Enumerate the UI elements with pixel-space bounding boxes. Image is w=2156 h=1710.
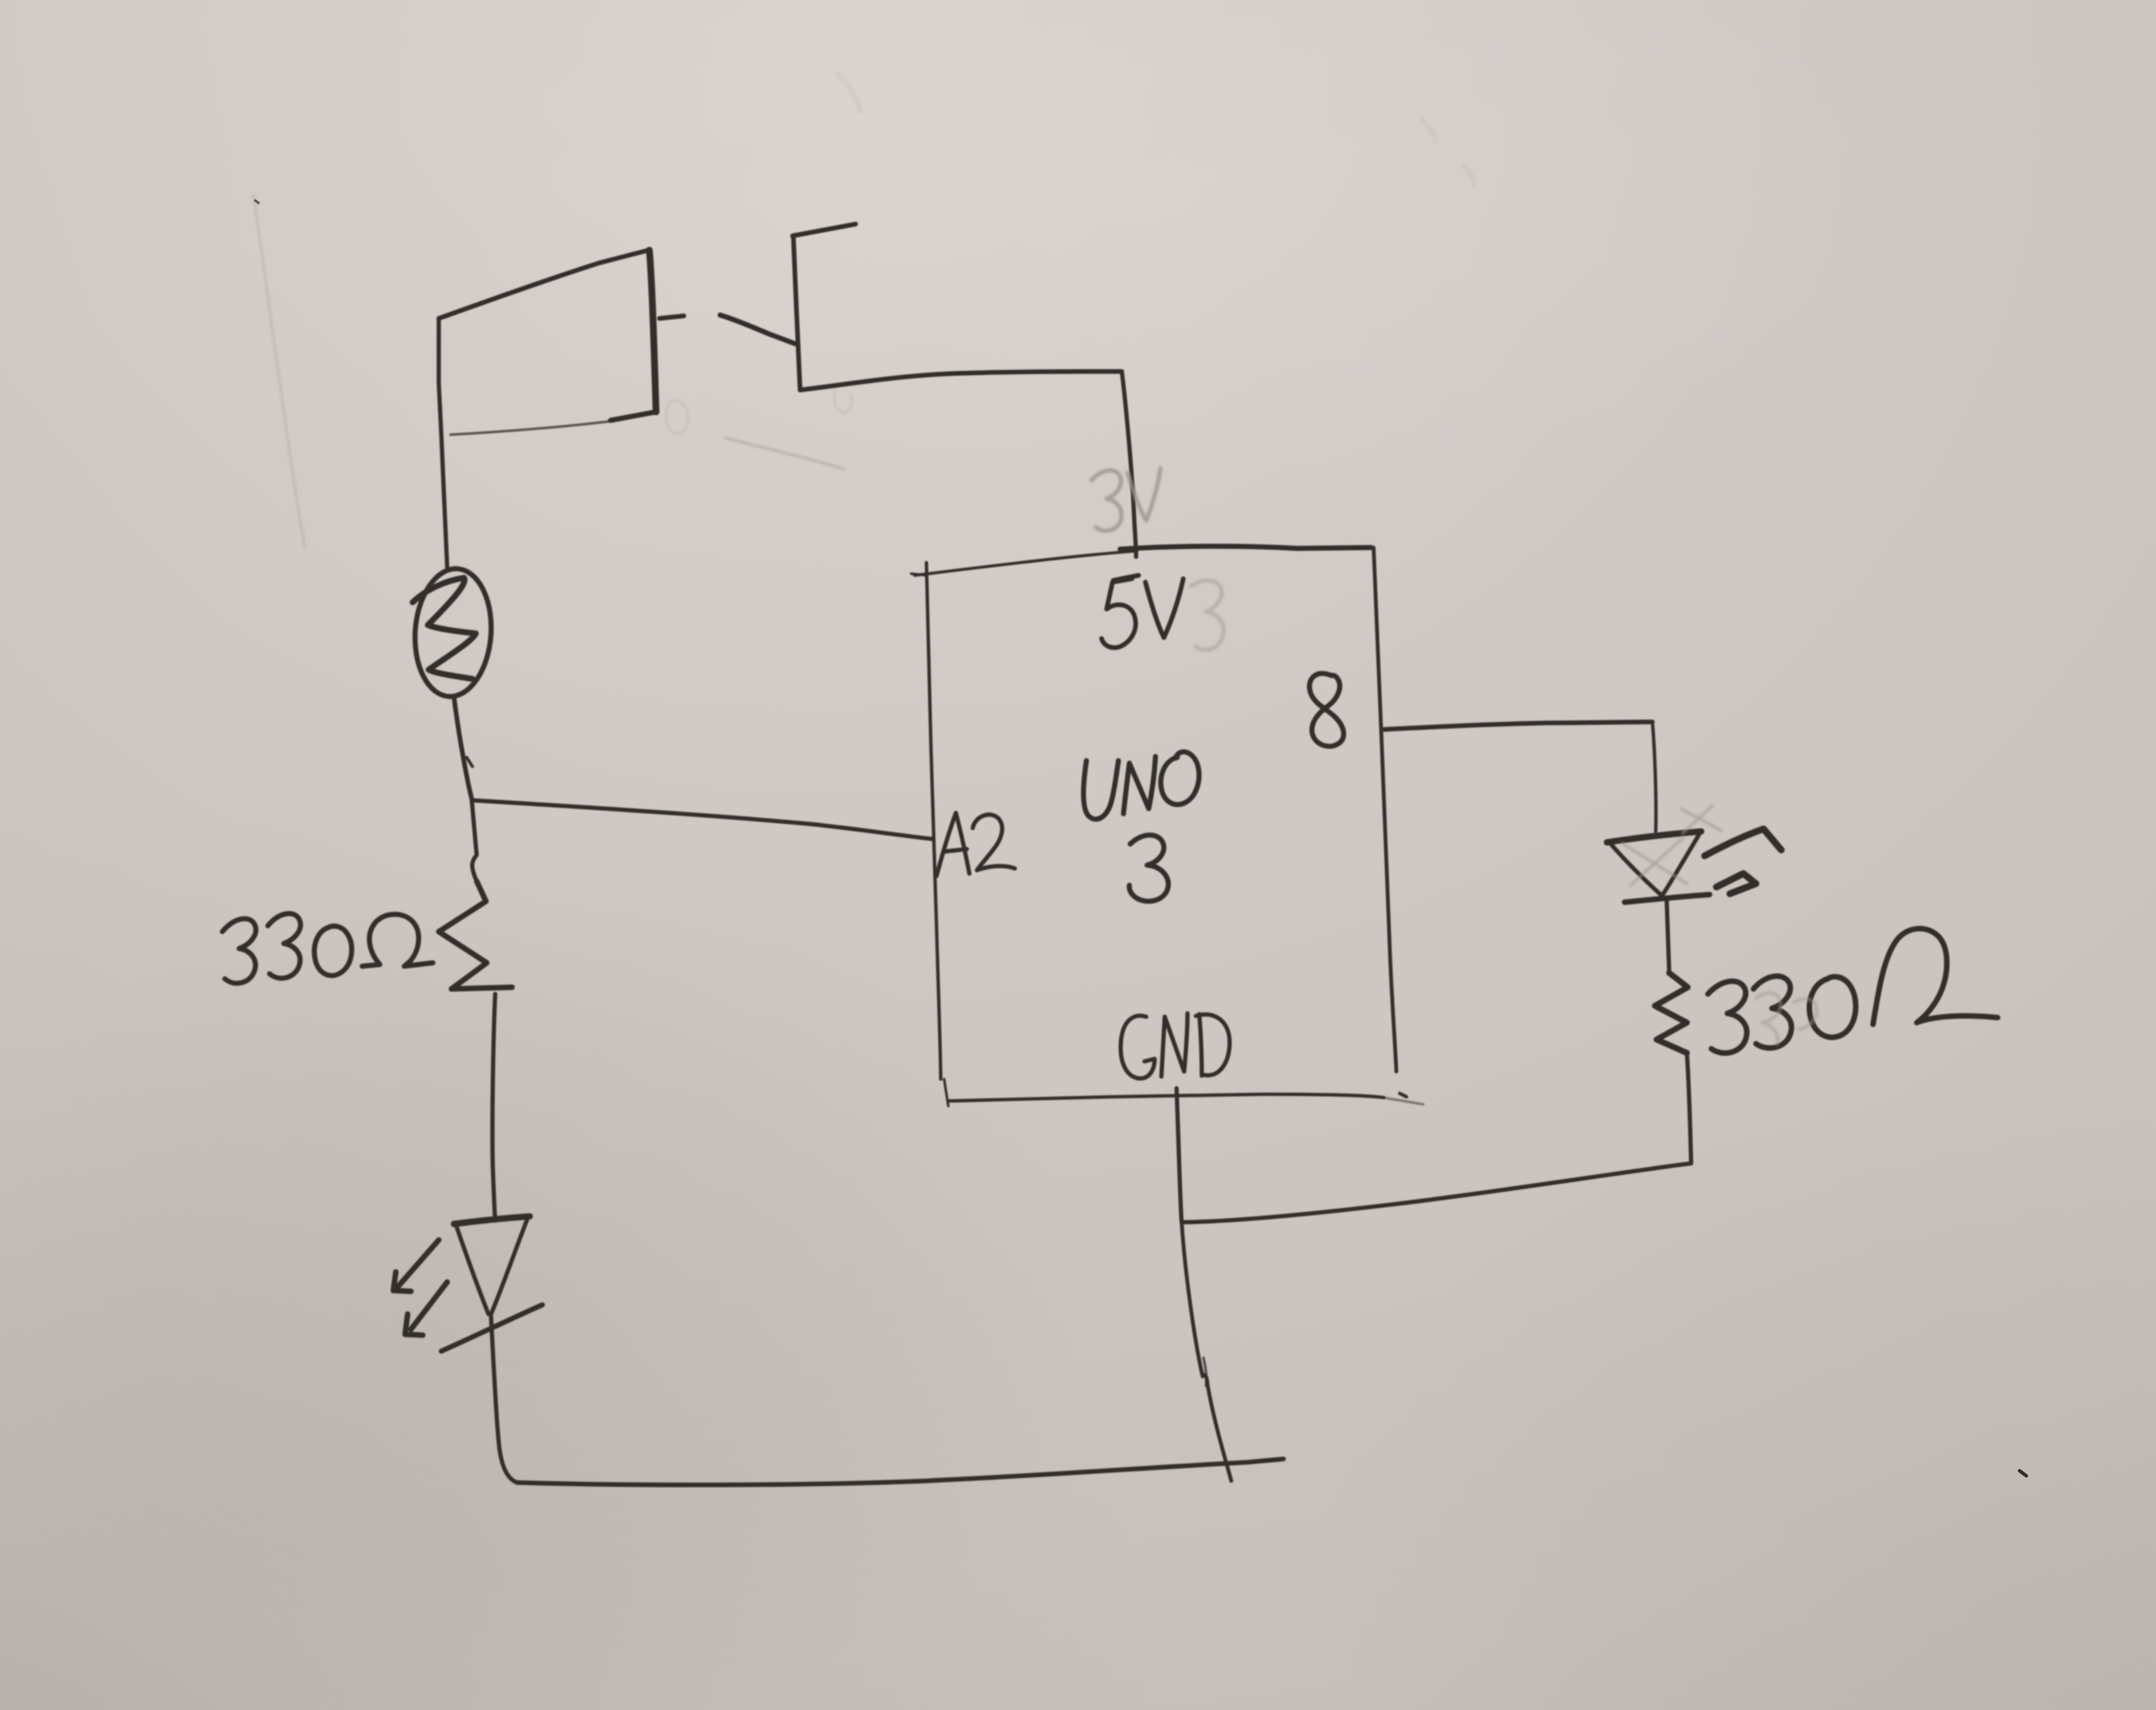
pencil ghost under 330 right <box>1756 993 1817 1045</box>
wire junction to A2 pin <box>472 800 933 839</box>
wire GND pin down <box>1177 1088 1182 1221</box>
pencil ghost 3 after 5V <box>1191 580 1224 649</box>
switch S1 left contact tick <box>659 316 684 318</box>
switch S1 left contact plate (hand-drawn rectangle) <box>439 250 656 435</box>
label 330ohm left <box>222 914 433 984</box>
wire LDR top <box>441 435 447 568</box>
photoresistor LDR (oval with squiggle) <box>411 566 495 699</box>
label UNO <box>1084 752 1199 820</box>
label 330ohm right <box>1708 928 1998 1053</box>
LED D2 emission arrows <box>1705 829 1781 894</box>
switch S1 right bracket <box>792 224 856 390</box>
wire from switch to 5V corner <box>800 371 1122 390</box>
box left edge <box>926 563 941 1079</box>
LED D1 (triangle down) <box>454 1216 530 1314</box>
resistor R1 zigzag <box>439 881 512 989</box>
arduino UNO box <box>911 546 1423 1106</box>
bottom wire to GND <box>517 1459 1283 1485</box>
box right edge <box>1374 548 1396 1071</box>
LED D1 cathode bar <box>441 1305 542 1351</box>
label GND <box>1121 1013 1230 1078</box>
wire R1 to LED1 <box>493 994 495 1221</box>
switch S1 movable contact lead <box>720 315 795 344</box>
wire LDR to junction <box>454 697 472 799</box>
box top edge <box>915 551 1137 575</box>
paper wrinkle top center <box>838 74 861 111</box>
paper dents top right <box>1422 120 1436 142</box>
wire LED1 down to bottom <box>491 1316 517 1483</box>
resistor R2 zigzag <box>1655 973 1688 1053</box>
wire pin8 to LED2 <box>1384 722 1652 729</box>
LED D2 cathode bar <box>1625 895 1710 902</box>
label 8 <box>1310 673 1344 745</box>
pencil label 3V <box>1091 468 1161 531</box>
LED D2 (triangle down) <box>1607 831 1701 895</box>
wire GND branch to R2 <box>1182 1163 1691 1222</box>
pencil stray diagonal near switch <box>726 438 845 469</box>
label 3 (pin) <box>1129 835 1168 901</box>
pencil smudges near switch bottom <box>666 391 852 434</box>
node junction GND <box>1182 1221 1231 1481</box>
wire drop to 5V pin <box>1122 371 1136 557</box>
pencil hatch on LED D2 <box>1622 805 1721 885</box>
wire junction to R1 <box>472 799 477 881</box>
ink speck at box bottom edge <box>1400 1093 1406 1097</box>
label A2 <box>937 813 1015 876</box>
ink speck top left <box>255 200 259 203</box>
wire R2 down <box>1687 1053 1691 1163</box>
pencil faint vertical stray left <box>253 195 305 548</box>
ink speck bottom right <box>2020 1471 2026 1476</box>
label 5V <box>1102 575 1183 648</box>
wire LED2 to R2 <box>1667 900 1669 973</box>
box bottom edge <box>944 1079 948 1106</box>
node junction LDR / A2 <box>467 757 472 767</box>
LED D1 emission arrows <box>393 1240 447 1335</box>
